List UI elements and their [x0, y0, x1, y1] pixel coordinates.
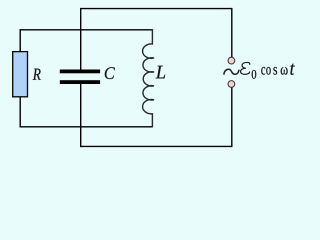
wire top rail B (R branch to L branch) [20, 29, 153, 31]
wire source branch top [231, 8, 233, 57]
wire top rail A (C branch to source branch) [81, 8, 232, 10]
wire C branch top [80, 8, 82, 70]
source terminal top circle [228, 57, 235, 64]
source terminal bottom circle [228, 81, 235, 88]
label C [105, 67, 115, 79]
label cos: c [261, 67, 265, 75]
label L [156, 66, 166, 79]
source tilde symbol [224, 69, 239, 74]
label script E (emf symbol), custom path [241, 62, 250, 74]
wire R branch bottom [19, 97, 21, 128]
label omega [281, 67, 288, 75]
capacitor C top plate [60, 70, 100, 74]
label cos: o [266, 67, 270, 75]
label cos: s [273, 67, 277, 75]
capacitor C bottom plate [60, 80, 100, 84]
wire bottom rail B2 (R branch to L branch) [20, 126, 153, 128]
wire R branch top [19, 29, 21, 52]
inductor L coil with top and bottom leads [143, 29, 154, 127]
wire source branch bottom [231, 87, 233, 147]
wire C branch bottom [80, 84, 82, 147]
wire bottom rail A2 (C branch to source branch) [81, 145, 232, 147]
label t [290, 64, 294, 75]
resistor R [13, 52, 28, 97]
label R [33, 69, 41, 80]
label subscript 0 [252, 70, 257, 79]
